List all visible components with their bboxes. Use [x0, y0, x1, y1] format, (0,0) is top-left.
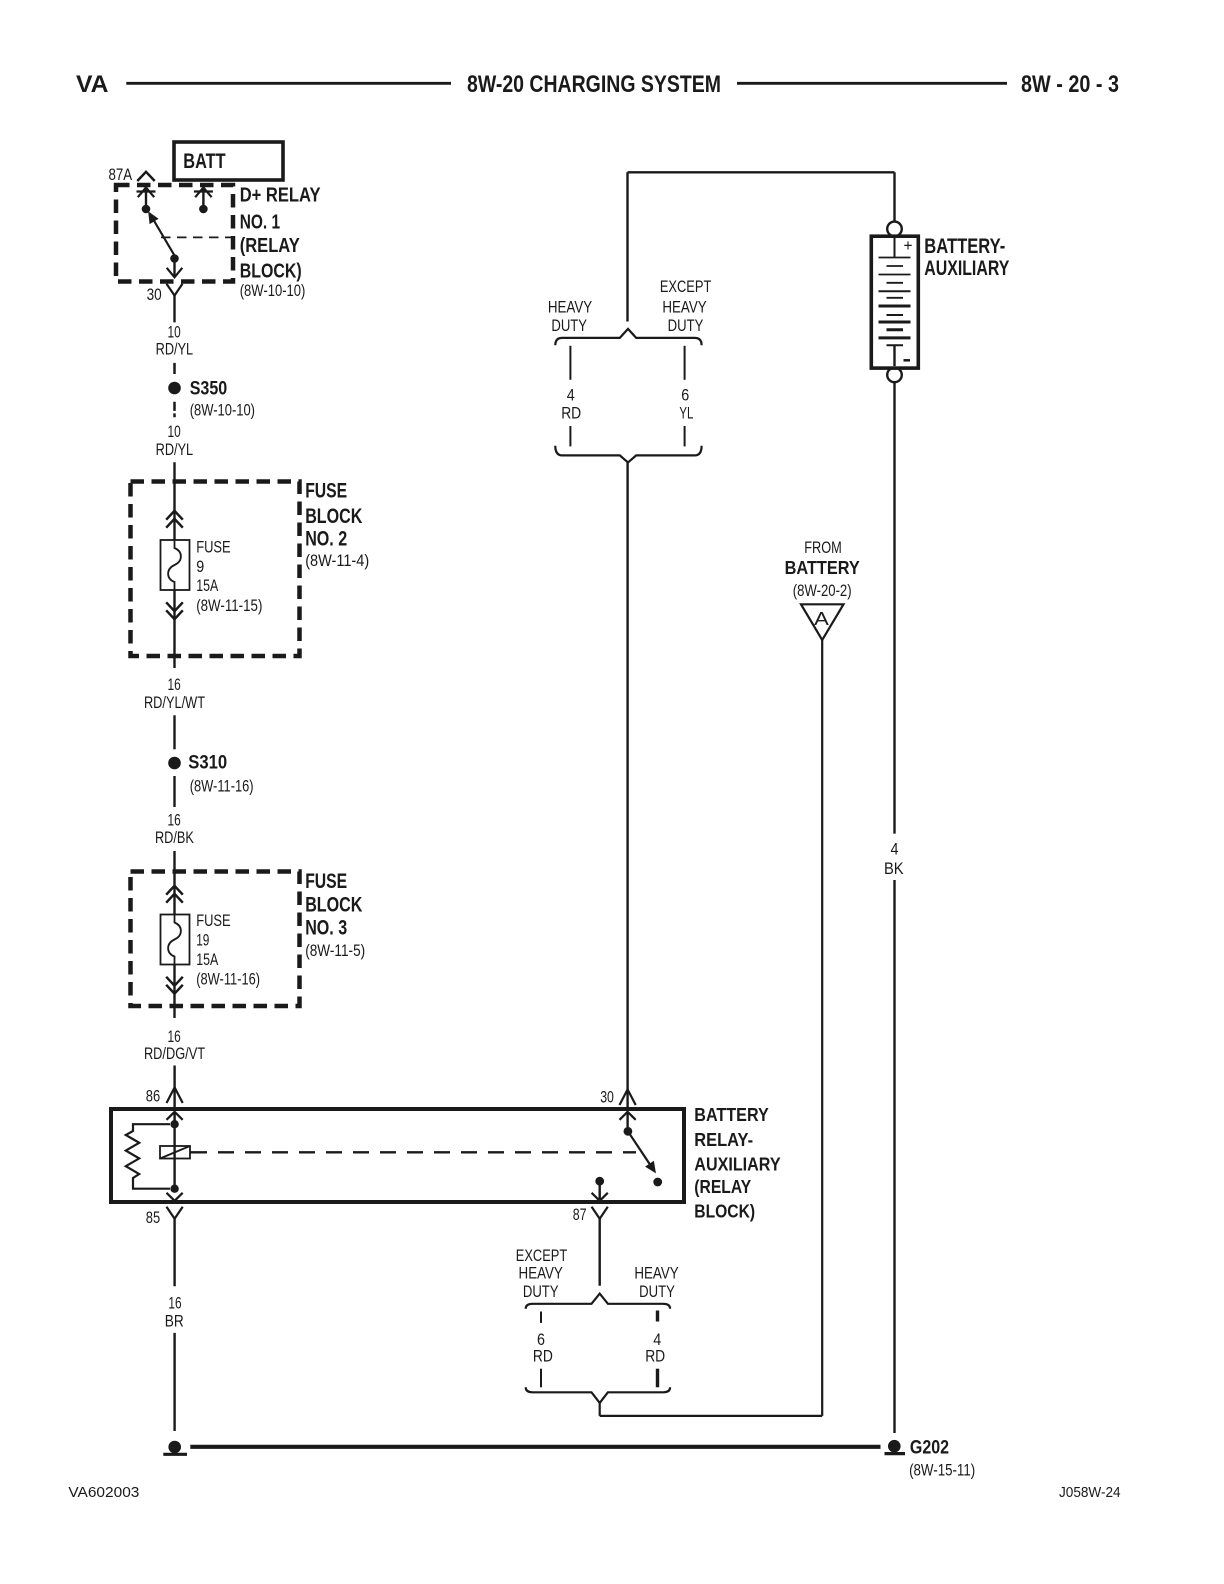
BATT box	[174, 142, 283, 180]
coil actuation dashed line	[190, 1151, 636, 1153]
pin 30 connector chevron relay K2	[620, 1089, 636, 1105]
label FUSE BLOCK NO. 3 (8W-11-5)	[305, 869, 365, 960]
svg-text:(RELAY: (RELAY	[240, 234, 300, 257]
svg-text:87A: 87A	[109, 166, 133, 184]
splice S310	[168, 753, 253, 796]
wire pin 85 down	[173, 1219, 175, 1287]
wire label 10 RD/YL	[156, 323, 194, 358]
svg-text:8W - 20 - 3: 8W - 20 - 3	[1021, 71, 1119, 98]
battery B1 auxiliary	[871, 172, 918, 382]
pin 30 arrow inside relay K2	[620, 1112, 636, 1128]
pin 85 arrow inside	[167, 1193, 183, 1201]
svg-text:16: 16	[168, 812, 181, 830]
wire dash above S350	[173, 363, 176, 374]
wire pin 87 down	[599, 1219, 601, 1286]
label BATTERY-AUXILIARY	[924, 235, 1009, 280]
fuse F9 15A	[161, 538, 263, 615]
pin 87A chevron	[137, 172, 154, 181]
svg-text:(8W-11-16): (8W-11-16)	[196, 969, 260, 988]
double chevron up fuse 19	[166, 886, 183, 903]
svg-text:(8W-20-2): (8W-20-2)	[793, 581, 852, 600]
ground G202	[885, 1436, 976, 1479]
fuse block no.3 dashed box	[131, 872, 300, 1007]
wire tick 6RD upper	[540, 1312, 542, 1323]
coil lower junction dot	[170, 1185, 178, 1193]
wire into fuse block 2	[173, 462, 175, 540]
pin BATT terminal	[194, 188, 213, 214]
svg-text:RD: RD	[533, 1348, 553, 1366]
wire label 16 RD/DG/VT	[144, 1028, 205, 1063]
svg-text:BATTERY-: BATTERY-	[924, 235, 1005, 258]
wire middle column to relay pin 30	[626, 462, 628, 1107]
svg-text:RD/YL: RD/YL	[156, 340, 194, 358]
svg-text:D+ RELAY: D+ RELAY	[240, 184, 321, 207]
wire battery negative lower	[893, 880, 895, 1433]
wire tick 4RD top lower	[569, 426, 571, 446]
wire top horizontal feed	[628, 171, 895, 173]
svg-text:(RELAY: (RELAY	[694, 1177, 751, 1197]
wire label 16 RD/YL/WT	[144, 676, 205, 712]
wire battery feed A down	[821, 640, 823, 1416]
fuse block no.2 dashed box	[131, 482, 300, 657]
wire pin30 down	[173, 296, 175, 323]
svg-text:YL: YL	[679, 405, 693, 423]
resistor R across coil	[126, 1124, 170, 1189]
svg-text:HEAVY: HEAVY	[634, 1265, 678, 1283]
svg-text:BLOCK): BLOCK)	[240, 260, 302, 283]
node A feed triangle	[801, 604, 844, 640]
svg-text:85: 85	[146, 1209, 160, 1227]
svg-text:(8W-11-5): (8W-11-5)	[305, 941, 365, 960]
svg-text:FUSE: FUSE	[305, 869, 347, 893]
svg-text:BATT: BATT	[183, 149, 225, 173]
wire into relay pin 86	[173, 1066, 175, 1108]
svg-text:RELAY-: RELAY-	[694, 1130, 753, 1150]
label BATTERY RELAY-AUXILIARY (RELAY BLOCK)	[694, 1105, 780, 1222]
svg-text:HEAVY: HEAVY	[519, 1265, 563, 1283]
svg-text:4: 4	[653, 1331, 661, 1349]
ground terminal left	[163, 1441, 187, 1455]
wire label 6 YL upper	[679, 387, 693, 423]
svg-text:BK: BK	[884, 860, 904, 878]
svg-text:DUTY: DUTY	[639, 1283, 675, 1301]
svg-text:(8W-11-16): (8W-11-16)	[190, 777, 254, 796]
relay K1 D+ RELAY NO.1 dashed block	[116, 185, 233, 282]
svg-text:BR: BR	[165, 1312, 184, 1330]
label D+ RELAY NO. 1 (RELAY BLOCK) (8W-10-10)	[240, 184, 321, 301]
svg-text:RD/YL: RD/YL	[156, 441, 194, 459]
svg-text:EXCEPT: EXCEPT	[660, 278, 712, 296]
svg-text:8W-20 CHARGING SYSTEM: 8W-20 CHARGING SYSTEM	[467, 71, 721, 98]
svg-text:RD/YL/WT: RD/YL/WT	[144, 694, 205, 712]
label EXCEPT HEAVY DUTY upper	[660, 278, 712, 335]
svg-text:G202: G202	[910, 1436, 949, 1458]
svg-text:(8W-10-10): (8W-10-10)	[240, 281, 306, 300]
wire label 4 RD	[645, 1331, 665, 1366]
brace split upper top	[555, 329, 701, 345]
svg-text:6: 6	[681, 387, 689, 405]
svg-text:(8W-11-4): (8W-11-4)	[305, 551, 369, 570]
wire below S310	[173, 776, 175, 807]
svg-text:BLOCK: BLOCK	[305, 504, 363, 528]
label FROM BATTERY (8W-20-2)	[785, 539, 860, 600]
wire label 6 RD	[533, 1331, 553, 1366]
wire above S310	[173, 715, 175, 749]
svg-text:FROM: FROM	[804, 539, 842, 557]
double chevron down fuse 9	[166, 602, 183, 619]
svg-text:RD: RD	[645, 1348, 665, 1366]
svg-text:EXCEPT: EXCEPT	[516, 1247, 568, 1265]
label FUSE BLOCK NO. 2 (8W-11-4)	[305, 479, 369, 570]
wire tick 6RD lower	[540, 1369, 542, 1388]
svg-text:16: 16	[168, 676, 181, 694]
svg-text:NO. 2: NO. 2	[305, 527, 347, 551]
svg-text:BATTERY: BATTERY	[785, 558, 860, 578]
svg-text:30: 30	[600, 1088, 614, 1106]
double chevron down fuse 19	[166, 977, 183, 994]
brace merge lower bottom	[526, 1387, 670, 1403]
svg-text:9: 9	[196, 558, 204, 576]
svg-text:15A: 15A	[196, 577, 218, 595]
switch pivot dot relay K2	[624, 1127, 633, 1136]
svg-text:16: 16	[168, 1028, 181, 1046]
svg-text:+: +	[904, 237, 913, 255]
svg-text:(8W-15-11): (8W-15-11)	[909, 1460, 975, 1479]
pin 87 arrow inside	[592, 1181, 608, 1201]
relay K2 switch arm	[628, 1131, 655, 1172]
svg-text:BLOCK: BLOCK	[305, 893, 363, 917]
svg-text:FUSE: FUSE	[305, 479, 347, 503]
svg-text:NO. 3: NO. 3	[305, 916, 347, 940]
pin 85 connector Y	[167, 1207, 183, 1219]
svg-text:87: 87	[573, 1206, 587, 1224]
svg-text:VA: VA	[76, 71, 109, 98]
wire ground bus	[190, 1445, 880, 1449]
svg-text:BATTERY: BATTERY	[694, 1105, 769, 1125]
svg-text:(8W-11-15): (8W-11-15)	[196, 596, 262, 615]
svg-text:DUTY: DUTY	[668, 317, 704, 335]
header rule left	[126, 82, 451, 85]
pin 87A terminal	[137, 188, 156, 214]
svg-text:(8W-10-10): (8W-10-10)	[190, 401, 255, 420]
double chevron up fuse 9	[166, 511, 183, 528]
relay K2 BATTERY RELAY-AUXILIARY box	[111, 1109, 684, 1202]
svg-text:S350: S350	[190, 379, 228, 400]
fuse F19 15A	[161, 912, 261, 989]
wire tick 6YL top lower	[684, 426, 686, 446]
relay K2 coil	[160, 1146, 190, 1159]
pin 86 connector chevron	[167, 1087, 183, 1103]
wire tick 4RD upper	[656, 1311, 659, 1322]
svg-text:A: A	[814, 609, 829, 629]
svg-text:10: 10	[168, 423, 181, 441]
wire through coil	[173, 1124, 175, 1189]
svg-text:DUTY: DUTY	[551, 317, 587, 335]
svg-text:HEAVY: HEAVY	[548, 298, 592, 316]
splice S350	[168, 379, 255, 420]
wire battery negative upper	[893, 382, 895, 833]
wire out of fuse block 3	[173, 965, 175, 1019]
wire label 10 RD/YL second	[156, 423, 194, 459]
svg-text:10: 10	[168, 323, 181, 341]
svg-text:16: 16	[168, 1294, 181, 1312]
label EXCEPT HEAVY DUTY lower	[516, 1247, 568, 1301]
svg-text:FUSE: FUSE	[196, 538, 231, 556]
wire label 16 RD/BK	[155, 812, 194, 847]
pin 87 dot	[595, 1177, 604, 1186]
svg-text:AUXILIARY: AUXILIARY	[694, 1155, 780, 1175]
svg-text:30: 30	[147, 286, 162, 304]
wire top middle vertical	[626, 172, 628, 321]
svg-text:19: 19	[196, 931, 209, 949]
wire horizontal join to battery feed	[600, 1415, 823, 1417]
wire label 4 BK	[884, 840, 904, 878]
wire pin 85 lead to ground	[173, 1333, 175, 1431]
svg-text:86: 86	[146, 1088, 160, 1106]
svg-text:DUTY: DUTY	[523, 1283, 559, 1301]
pin 30 terminal	[167, 254, 183, 277]
svg-text:J058W-24: J058W-24	[1059, 1485, 1121, 1501]
svg-text:FUSE: FUSE	[196, 912, 231, 930]
wire tick 6YL top upper	[684, 346, 686, 380]
brace merge upper bottom	[555, 446, 701, 463]
label HEAVY DUTY lower	[634, 1265, 678, 1302]
svg-text:15A: 15A	[196, 951, 218, 969]
wire label 16 BR	[165, 1294, 184, 1330]
pin 87 connector Y	[592, 1207, 608, 1219]
brace split lower top	[526, 1294, 670, 1309]
svg-text:RD: RD	[561, 405, 581, 423]
pin 30 connector Y	[167, 284, 183, 296]
relay K1 switch arm	[149, 212, 175, 255]
label HEAVY DUTY upper	[548, 298, 592, 335]
wire tick 4RD lower	[656, 1369, 659, 1388]
svg-text:RD/BK: RD/BK	[155, 829, 194, 847]
svg-text:VA602003: VA602003	[68, 1485, 139, 1501]
wire tick 4RD top upper	[569, 346, 571, 380]
wire out of fuse block 2	[173, 590, 175, 668]
coil upper junction dot	[170, 1120, 178, 1128]
wire brace output down	[599, 1403, 601, 1416]
svg-text:4: 4	[891, 840, 899, 858]
svg-text:BLOCK): BLOCK)	[694, 1202, 755, 1222]
wire dashes below S350	[173, 402, 176, 418]
svg-text:NO. 1: NO. 1	[240, 211, 280, 234]
svg-text:S310: S310	[188, 753, 227, 774]
svg-text:RD/DG/VT: RD/DG/VT	[144, 1045, 205, 1063]
wire into fuse block 3	[173, 851, 175, 915]
switch throw dot relay K2	[653, 1178, 662, 1187]
svg-text:6: 6	[537, 1331, 545, 1349]
header rule right	[737, 82, 1007, 85]
wire label 4 RD upper	[561, 387, 581, 423]
svg-text:4: 4	[567, 387, 575, 405]
relay K1 coil actuation dashed line	[161, 236, 232, 238]
svg-text:AUXILIARY: AUXILIARY	[924, 257, 1009, 280]
svg-text:HEAVY: HEAVY	[662, 298, 706, 316]
pin 86 arrow inside	[167, 1112, 183, 1125]
